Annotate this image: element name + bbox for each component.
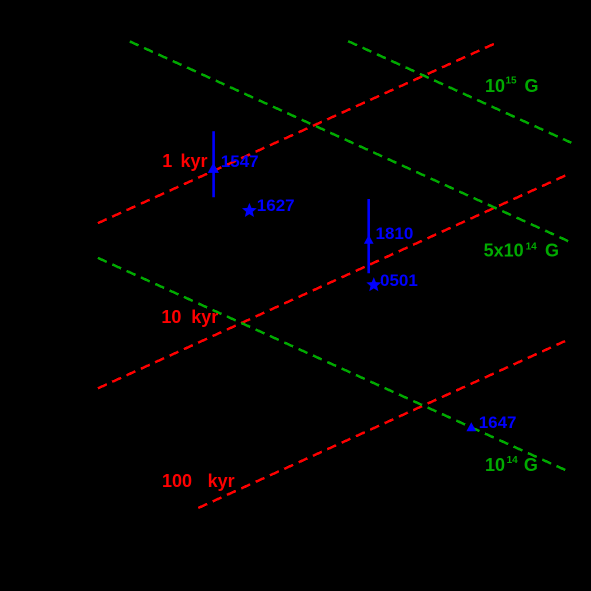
- age line 1 kyr (red dashed): [98, 44, 494, 223]
- age line 100 kyr (red dashed): [198, 341, 565, 508]
- svg-text:14: 14: [507, 455, 519, 466]
- svg-text:G: G: [545, 241, 559, 261]
- svg-text:14: 14: [526, 242, 538, 253]
- svg-text:1627: 1627: [257, 196, 295, 215]
- svg-text:10: 10: [161, 307, 181, 327]
- label 1e15 G: [485, 76, 539, 97]
- label 1 kyr: [162, 151, 207, 171]
- svg-text:15: 15: [506, 76, 518, 87]
- svg-text:kyr: kyr: [181, 151, 208, 171]
- age line 10 kyr (red dashed): [98, 175, 566, 388]
- svg-text:10: 10: [485, 76, 505, 96]
- B-field line 1e14 G (green dashed): [98, 258, 565, 470]
- magnetar 1547: triangle marker: [208, 163, 219, 173]
- svg-text:1647: 1647: [479, 413, 517, 432]
- svg-text:kyr: kyr: [208, 471, 235, 491]
- B-field line 5e14 G (green dashed): [130, 41, 569, 241]
- magnetar 0501: star marker: [366, 277, 381, 291]
- magnetar 1647: triangle marker: [466, 422, 476, 431]
- svg-text:1547: 1547: [221, 152, 259, 171]
- svg-text:1: 1: [162, 151, 172, 171]
- magnetar 1627: star marker: [242, 203, 257, 217]
- label 5e14 G: [484, 241, 559, 261]
- magnetar 1810: error bar: [367, 199, 370, 273]
- svg-text:G: G: [525, 76, 539, 96]
- label 100 kyr: [162, 471, 235, 491]
- svg-text:1810: 1810: [376, 224, 414, 243]
- B-field line 1e15 G (green dashed): [348, 41, 571, 143]
- svg-text:5x10: 5x10: [484, 241, 524, 261]
- magnetar 1547: error bar: [212, 131, 215, 197]
- label 10 kyr: [161, 307, 218, 327]
- svg-text:10: 10: [485, 455, 505, 475]
- svg-text:100: 100: [162, 471, 192, 491]
- svg-text:0501: 0501: [380, 271, 418, 290]
- svg-text:kyr: kyr: [191, 307, 218, 327]
- magnetar 1810: triangle marker: [364, 235, 374, 244]
- label 1e14 G: [485, 455, 538, 475]
- svg-text:G: G: [524, 455, 538, 475]
